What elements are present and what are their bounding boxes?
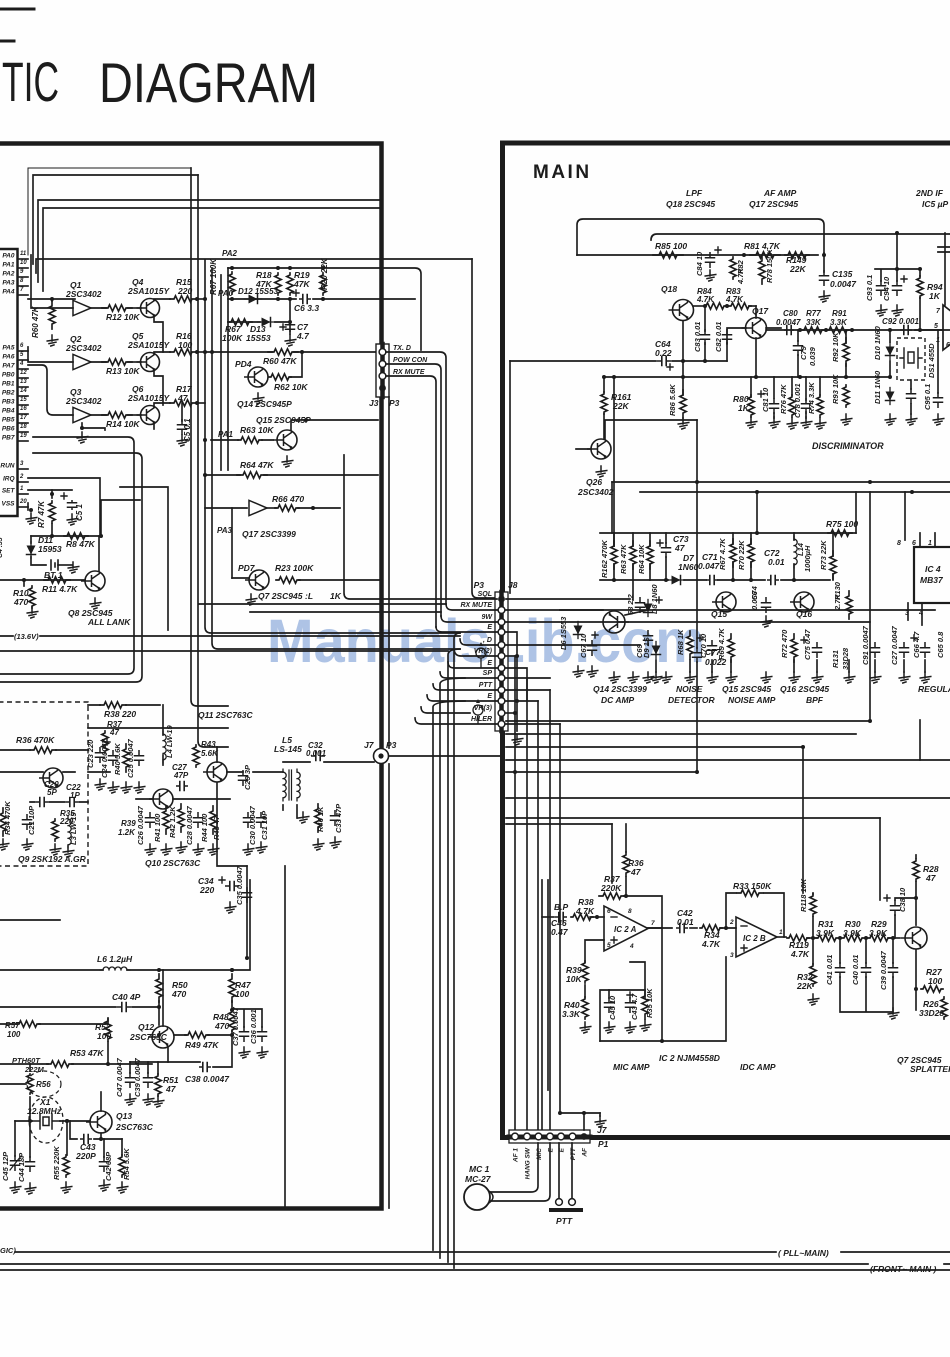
capacitor C43c [626, 998, 635, 1012]
wire C64 row [510, 360, 727, 362]
svg-text:0.22: 0.22 [655, 348, 672, 358]
inductor L6 [100, 967, 130, 970]
ground [815, 418, 826, 429]
diode D11b [889, 388, 891, 405]
ground [121, 782, 132, 793]
resistor R84 [704, 303, 726, 309]
svg-text:1: 1 [928, 540, 932, 547]
pin stub PA6 [18, 359, 29, 361]
wire noise verts2 [733, 533, 833, 580]
svg-text:17: 17 [20, 415, 27, 421]
pin stub PA4 [18, 294, 29, 296]
svg-text:470: 470 [13, 597, 28, 607]
page artifact left [0, 40, 14, 43]
svg-text:C35 0.0047: C35 0.0047 [235, 865, 244, 905]
svg-text:4.7: 4.7 [296, 331, 310, 341]
svg-text:POW CON: POW CON [393, 357, 428, 364]
polarity + [219, 877, 225, 883]
junction [864, 936, 868, 940]
junction [612, 375, 616, 379]
svg-text:R77: R77 [806, 309, 821, 318]
wire C38 loop [213, 1035, 232, 1067]
wire C6 C7 [289, 299, 291, 322]
svg-text:Q14 2SC3399: Q14 2SC3399 [593, 684, 647, 694]
wire R53 row [0, 1063, 108, 1065]
capacitor C21 [23, 815, 32, 829]
wire long vertical right [284, 866, 286, 1208]
svg-text:AF 1: AF 1 [513, 1148, 520, 1163]
wire bus PA1 [33, 175, 198, 264]
resistor R18 [275, 273, 281, 295]
wire bus 492 [640, 491, 950, 493]
svg-text:1K: 1K [929, 291, 941, 301]
wire D bend [460, 639, 497, 645]
svg-text:2SC3402: 2SC3402 [577, 487, 614, 497]
svg-text:R67 100K: R67 100K [209, 258, 218, 295]
polarity + [884, 895, 890, 901]
wire R66 out [298, 507, 340, 509]
capacitor C73 [662, 543, 671, 557]
transistor Q8 2SC945 [81, 571, 105, 591]
svg-text:SPLATTER: SPLATTER [910, 1064, 950, 1074]
resistor R86 [680, 390, 686, 418]
svg-text:AF: AF [582, 1147, 589, 1158]
wire down PTT [549, 690, 551, 1129]
svg-text:68 2.2: 68 2.2 [626, 593, 635, 615]
capacitor C25 [135, 751, 144, 765]
junction [801, 745, 805, 749]
svg-text:33K: 33K [806, 318, 822, 327]
ground [239, 1047, 250, 1058]
pin E [498, 629, 505, 636]
wire R33 feedback [726, 893, 784, 937]
capacitor C91 [871, 643, 880, 657]
svg-text:D6 1S553: D6 1S553 [559, 616, 568, 650]
svg-text:9W: 9W [482, 614, 494, 621]
svg-text:R64 10K: R64 10K [637, 544, 646, 574]
resistor R82 [730, 257, 736, 279]
wire loop PB6 [0, 437, 134, 674]
ground [208, 844, 219, 855]
ground [643, 672, 654, 683]
junction [792, 578, 796, 582]
polarity + [911, 635, 917, 641]
capacitor C43b 220P [81, 1135, 91, 1144]
svg-text:7: 7 [936, 308, 941, 315]
wire POW CON run [386, 364, 441, 616]
inductor L5 secondary [297, 769, 300, 801]
resistor R64 [237, 472, 267, 478]
capacitor C81 [770, 399, 779, 413]
ground [47, 335, 58, 346]
svg-text:10: 10 [20, 260, 27, 266]
wire R7 bottom [51, 524, 53, 536]
svg-text:E: E [487, 624, 492, 631]
resistor R47 [229, 974, 235, 1002]
wire noise verts [614, 533, 666, 600]
svg-text:R23 100K: R23 100K [275, 563, 314, 573]
svg-text:VSS: VSS [1, 501, 15, 508]
svg-text:1: 1 [20, 486, 24, 492]
wire Q11 [217, 747, 247, 866]
wire block left v2 [220, 275, 222, 470]
wire R35 top [630, 962, 645, 990]
svg-text:1: 1 [779, 929, 783, 936]
resistor R94 [917, 276, 923, 298]
wire TXD b [294, 351, 378, 353]
wire RX MUTE bend [446, 604, 497, 610]
wire rail B [651, 234, 950, 240]
ground [25, 1183, 36, 1194]
wire rail SQL area [199, 603, 446, 605]
ground [746, 417, 757, 428]
ground [99, 1180, 110, 1191]
wire down 3 [537, 701, 539, 1129]
wire discr verts [846, 330, 890, 377]
transistor Q4 [137, 299, 160, 318]
resistor R76 [789, 395, 795, 417]
wire rail 2 [0, 650, 448, 652]
wire 9W right [506, 621, 870, 623]
resistor R51 [155, 1074, 161, 1096]
ground [801, 417, 812, 428]
svg-text:R72 470: R72 470 [780, 629, 789, 658]
svg-text:1: 1 [936, 337, 940, 344]
wire J7 down [388, 764, 390, 1208]
capacitor C36 [258, 1027, 267, 1041]
resistor R119 [787, 935, 809, 941]
ground [117, 1182, 128, 1193]
junction [300, 350, 304, 354]
wire J7 to MAIN [389, 755, 502, 757]
svg-text:19: 19 [20, 433, 27, 439]
svg-text:2SC763C: 2SC763C [129, 1032, 168, 1042]
svg-text:B.P: B.P [554, 902, 569, 912]
resistor R38c [571, 914, 593, 920]
svg-text:5P: 5P [47, 788, 57, 797]
junction [288, 266, 292, 270]
bottom line FRONT-MAIN b [0, 1269, 950, 1271]
pin AF 2 [581, 1133, 588, 1140]
svg-text:47: 47 [925, 873, 937, 883]
wire L4 [162, 705, 164, 765]
ground [143, 1094, 154, 1105]
ground [285, 335, 296, 346]
svg-text:10K: 10K [566, 974, 582, 984]
ground [651, 672, 662, 683]
svg-text:3: 3 [730, 952, 734, 959]
ground [67, 514, 78, 525]
svg-text:PD4: PD4 [235, 359, 252, 369]
svg-text:47: 47 [674, 543, 686, 553]
junction [798, 328, 802, 332]
svg-text:C95 0.1: C95 0.1 [923, 384, 932, 410]
bus line 6 [506, 797, 950, 799]
wire cap tops [840, 938, 893, 963]
svg-text:100: 100 [235, 989, 249, 999]
ground [892, 305, 903, 316]
svg-text:PTT: PTT [479, 682, 493, 689]
resistor R130 [846, 591, 852, 619]
resistor R56 [27, 1074, 33, 1094]
svg-text:D8 1N60: D8 1N60 [650, 584, 659, 614]
capacitor C27c [900, 643, 909, 657]
svg-text:RUN: RUN [0, 463, 14, 470]
junction [895, 231, 899, 235]
ground [580, 1022, 591, 1033]
bus line 4 [506, 759, 950, 761]
wire D11 top [30, 536, 32, 543]
junction [304, 418, 308, 422]
wire R56 to X1 [29, 1097, 31, 1121]
wire RX MUTE run [386, 376, 436, 627]
wire bus vertical C [205, 260, 460, 633]
wire gnd stub [655, 660, 657, 672]
svg-text:12: 12 [20, 370, 27, 376]
svg-text:1K: 1K [330, 591, 342, 601]
svg-text:4.7K: 4.7K [736, 268, 745, 285]
svg-text:C83 0.01: C83 0.01 [693, 322, 702, 352]
wire IC2B out [777, 936, 786, 938]
svg-text:1.2K: 1.2K [118, 828, 136, 837]
transistor Q11 2SC763C [203, 762, 227, 782]
svg-text:C27 0.0047: C27 0.0047 [890, 625, 899, 665]
svg-text:R14 10K: R14 10K [106, 419, 140, 429]
svg-text:R57: R57 [5, 1021, 20, 1030]
ground [906, 414, 917, 425]
pin stub PB3 [18, 404, 29, 406]
ground [50, 844, 61, 855]
pin stub PB0 [18, 377, 29, 379]
wire BT1 [31, 557, 46, 565]
capacitor C29 [239, 771, 248, 785]
wire Q7 emitter [915, 950, 917, 1010]
svg-text:C66 4.7: C66 4.7 [912, 631, 921, 658]
junction [230, 297, 234, 301]
resistor R72 [791, 634, 797, 662]
svg-text:PA1: PA1 [218, 430, 234, 439]
resistor R12 [102, 305, 132, 311]
wire R52 bottom [107, 1042, 109, 1064]
junction [918, 267, 922, 271]
svg-text:R56: R56 [36, 1080, 51, 1089]
resistor R75 [828, 530, 852, 536]
transistor Q18 [669, 300, 694, 321]
svg-text:PA0: PA0 [2, 253, 15, 260]
svg-text:8: 8 [20, 278, 24, 284]
junction [910, 490, 914, 494]
svg-text:0.0047: 0.0047 [830, 279, 857, 289]
wire Q14 base [560, 610, 648, 615]
ceramic filter DS1 [900, 348, 922, 368]
junction [868, 719, 872, 723]
junction [195, 401, 199, 405]
ground [330, 837, 341, 848]
wire gnd stub [599, 1113, 601, 1116]
resistor R50 [156, 974, 162, 1002]
capacitor C34 [226, 882, 238, 891]
resistor R32 [810, 964, 816, 986]
resistor R52 [105, 1019, 111, 1041]
wire R10 top [23, 580, 25, 586]
wire Q8 collector [98, 536, 100, 571]
resistor R70 [748, 539, 754, 567]
svg-text:R60 47K: R60 47K [31, 305, 40, 338]
junction [65, 1119, 69, 1123]
wire D right [506, 644, 640, 646]
junction [868, 480, 872, 484]
ground [819, 291, 830, 302]
junction [245, 956, 249, 960]
wire noise row 580 [600, 579, 830, 581]
wire gnd stub [711, 660, 713, 672]
svg-text:100: 100 [928, 976, 942, 986]
junction [50, 534, 54, 538]
wire Q3 gnd [81, 423, 83, 428]
junction [50, 297, 54, 301]
svg-text:PA7: PA7 [2, 363, 15, 370]
pin MIC [535, 1133, 542, 1140]
resistor R77 [802, 327, 824, 333]
wire PA7 to Q3 [28, 365, 73, 415]
wire rail 612 [250, 611, 441, 613]
bottom line PLL-MAIN b [841, 1251, 950, 1253]
ground [512, 734, 523, 745]
svg-text:2: 2 [729, 919, 734, 926]
svg-text:4.7K: 4.7K [790, 949, 810, 959]
svg-text:2SC763C: 2SC763C [115, 1122, 154, 1132]
wire down 5 [559, 724, 561, 1113]
ground [26, 513, 37, 524]
ground [125, 1094, 136, 1105]
junction [106, 1062, 110, 1066]
wire Q17 collector [755, 306, 757, 318]
wire R23 out [299, 579, 381, 581]
wire Q1 out [91, 307, 106, 309]
wire cluster drops [15, 1121, 122, 1157]
transistor Q17b [742, 318, 767, 339]
wire into IC5 [915, 329, 943, 331]
svg-text:2SC3402: 2SC3402 [65, 343, 102, 353]
wire RX MUTE right [506, 609, 935, 611]
svg-text:C40 0.01: C40 0.01 [851, 955, 860, 985]
svg-text:2SA1015Y: 2SA1015Y [127, 393, 170, 403]
capacitor C35 [243, 888, 252, 902]
wire SQL feed [344, 455, 497, 599]
junction [755, 490, 759, 494]
wire IC4 pins [905, 492, 935, 547]
capacitor C38c [891, 901, 900, 915]
pin RX MUTE [498, 607, 505, 614]
wire C38 top [895, 898, 916, 900]
junction [195, 297, 199, 301]
pin stub PA7 [18, 368, 29, 370]
svg-text:Q16 2SC945: Q16 2SC945 [780, 684, 829, 694]
svg-text:IC 2 NJM4558D: IC 2 NJM4558D [659, 1053, 720, 1063]
wire caps top [609, 990, 645, 998]
ground [134, 782, 145, 793]
resistor R14 [102, 412, 132, 418]
capacitor C95 [934, 393, 943, 407]
capacitor C26 [146, 813, 155, 827]
wire SQL right [506, 598, 630, 600]
ground [0, 839, 9, 850]
svg-text:7: 7 [651, 920, 655, 927]
wire R38 row [88, 704, 160, 706]
svg-text:P3: P3 [474, 580, 485, 590]
junction [513, 711, 517, 715]
wire block top [228, 268, 421, 350]
wire Q12 collector [162, 970, 164, 1026]
switch PTT bar [551, 1208, 581, 1212]
svg-text:4: 4 [19, 361, 24, 367]
svg-text:6: 6 [912, 540, 916, 547]
wire PTT bend [433, 684, 497, 690]
svg-text:MIC AMP: MIC AMP [613, 1062, 650, 1072]
svg-text:J7: J7 [364, 740, 375, 750]
capacitor C83 [701, 330, 710, 344]
svg-text:NOISE: NOISE [676, 684, 703, 694]
wire R17 out [196, 402, 205, 404]
resistor R81 [750, 252, 780, 258]
diode D7 [668, 579, 685, 581]
wire loop left [600, 990, 609, 1041]
buffer Q17 2SC3399 [249, 500, 267, 515]
svg-text:L6 1.2µH: L6 1.2µH [97, 954, 133, 964]
svg-text:7: 7 [20, 287, 24, 293]
wire drop to IC2A [611, 824, 613, 883]
pin POW CON [379, 361, 386, 368]
svg-text:Q16: Q16 [796, 609, 812, 619]
wire R119 out [807, 937, 817, 939]
svg-text:PB2: PB2 [2, 390, 15, 397]
plus IC2B [741, 945, 747, 951]
svg-text:220: 220 [177, 286, 192, 296]
ground [609, 672, 620, 683]
wire border through J8 [499, 592, 504, 731]
resistor R80 [748, 395, 754, 417]
diode D6 [577, 622, 579, 639]
inductor L5 primary [283, 769, 286, 801]
wire to Q5 [128, 361, 141, 363]
svg-text:DIAGRAM: DIAGRAM [99, 51, 318, 114]
trimmer arrow C45 [10, 1156, 21, 1170]
wire to Q4 [128, 307, 141, 309]
capacitor C23 [96, 748, 105, 762]
wire R118 [812, 893, 814, 938]
svg-text:C69: C69 [635, 643, 644, 658]
svg-text:DETECTOR: DETECTOR [668, 695, 715, 705]
bottom line PLL-MAIN a [15, 1251, 776, 1253]
svg-text:15: 15 [20, 397, 27, 403]
resistor R19 [287, 273, 293, 295]
capacitor C7 [286, 323, 295, 331]
svg-text:GIC): GIC) [0, 1246, 16, 1255]
transistor Q10 2SC763C [149, 789, 173, 809]
wire BT1 gnd [58, 564, 72, 566]
junction [558, 1111, 562, 1115]
ground [108, 782, 119, 793]
capacitor C46 [556, 913, 566, 922]
ground [243, 844, 254, 855]
wire gap v1 [454, 633, 460, 1268]
svg-text:C40 4P: C40 4P [112, 992, 141, 1002]
resistor R162 [611, 541, 617, 569]
wire R36 bottom [625, 877, 627, 896]
wire PA0 to Q1 [31, 255, 73, 308]
wire drop to R162 [613, 377, 615, 546]
resistor R64b [647, 541, 653, 569]
